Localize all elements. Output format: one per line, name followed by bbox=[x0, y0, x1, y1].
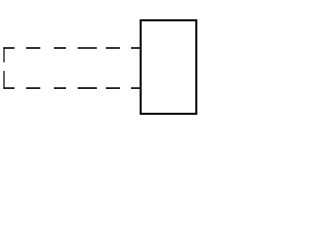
dashed bottom edge bbox=[3, 87, 140, 89]
dashed left edge bbox=[3, 47, 5, 89]
solid box bbox=[141, 20, 197, 114]
dashed top edge bbox=[3, 47, 140, 49]
